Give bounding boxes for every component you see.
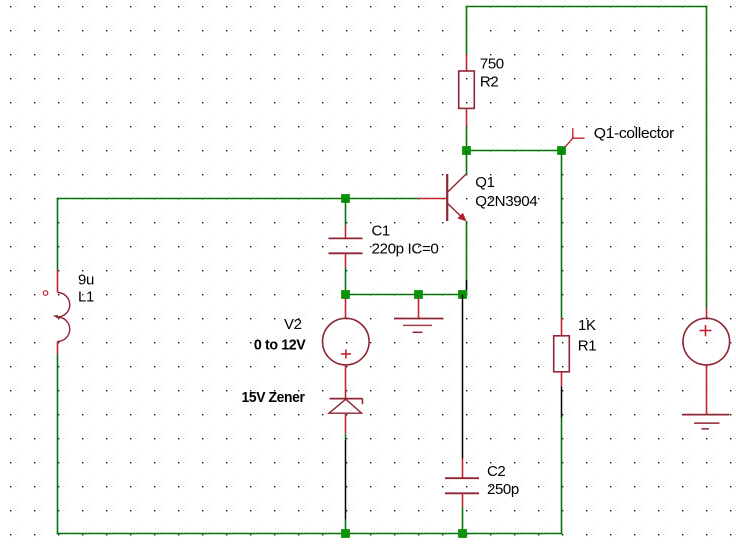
svg-text:V2: V2 <box>284 316 302 333</box>
svg-text:C1: C1 <box>372 223 390 240</box>
svg-text:C2: C2 <box>487 463 505 480</box>
wire base stem red <box>419 198 447 200</box>
wire C2 bottom green <box>462 507 464 533</box>
svg-text:250p: 250p <box>487 481 519 498</box>
wire zener green stub <box>345 433 347 440</box>
wire base row horizontal <box>57 198 419 200</box>
source V right <box>683 308 730 415</box>
wire bottom horizontal <box>57 533 563 535</box>
wire R1 bottom black <box>561 387 563 418</box>
svg-text:L1: L1 <box>78 289 94 306</box>
wire emitter stub black <box>466 280 468 291</box>
pin marker L1 circle <box>43 291 48 296</box>
node junction bottom V2 <box>341 529 350 538</box>
wire collector row <box>467 150 562 152</box>
svg-text:Q1-collector: Q1-collector <box>594 125 674 142</box>
node junction R2-collector <box>462 146 471 155</box>
wire C2 black <box>462 295 464 459</box>
node junction collector-R1 <box>557 146 566 155</box>
node junction base-C1 <box>341 194 350 203</box>
ground right <box>683 415 730 429</box>
wire right vertical <box>706 6 708 308</box>
svg-text:1K: 1K <box>578 317 596 334</box>
node junction bottom C2 <box>458 529 467 538</box>
wire zener bottom green <box>345 520 347 534</box>
wire middle row <box>346 294 467 296</box>
wire collector vertical <box>466 151 468 174</box>
inductor L1 <box>53 270 70 354</box>
node junction gnd <box>414 290 423 299</box>
svg-text:15V Zener: 15V Zener <box>242 389 306 406</box>
wire R1 bottom green <box>561 418 563 535</box>
svg-text:R1: R1 <box>578 337 596 354</box>
ground middle <box>394 298 444 332</box>
transistor Q1 <box>447 174 467 222</box>
marker Q1-collector probe <box>565 128 585 147</box>
wire left vertical bottom <box>57 354 59 534</box>
wire R1 top <box>561 151 563 319</box>
svg-text:220p IC=0: 220p IC=0 <box>372 240 439 257</box>
wire emitter vertical green <box>466 221 468 295</box>
node junction emitter-C2 <box>458 290 467 299</box>
svg-text:9u: 9u <box>78 272 94 289</box>
svg-text:Q1: Q1 <box>475 174 494 191</box>
svg-text:Q2N3904: Q2N3904 <box>475 193 537 210</box>
svg-text:0 to 12V: 0 to 12V <box>254 337 306 354</box>
capacitor C1 <box>329 199 363 295</box>
diode zener D1 <box>329 365 363 433</box>
svg-text:R2: R2 <box>480 74 498 91</box>
resistor R2 <box>459 54 475 127</box>
node junction C1-V2 <box>341 290 350 299</box>
wire R2 bottom <box>466 127 468 151</box>
svg-text:750: 750 <box>480 56 504 73</box>
resistor R1 <box>554 318 570 387</box>
capacitor C2 <box>445 459 479 508</box>
source V2 <box>323 298 370 365</box>
wire left vertical top <box>57 198 59 270</box>
wire zener black <box>345 440 347 520</box>
wire top horizontal <box>466 6 708 8</box>
wire R2 top <box>466 6 468 55</box>
